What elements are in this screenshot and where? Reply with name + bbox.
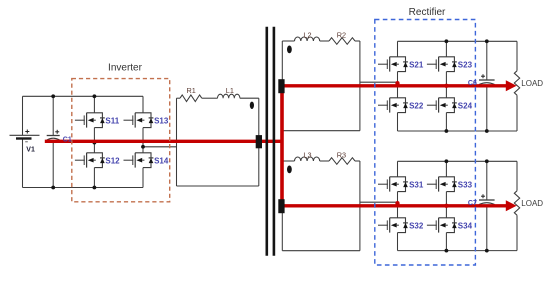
svg-text:S11: S11 <box>105 116 119 125</box>
svg-text:S13: S13 <box>154 116 169 125</box>
svg-text:R2: R2 <box>337 30 346 39</box>
svg-text:LOAD: LOAD <box>521 79 543 88</box>
svg-text:L1: L1 <box>226 86 234 95</box>
svg-text:S14: S14 <box>154 156 169 165</box>
svg-text:S33: S33 <box>458 180 473 189</box>
svg-text:R1: R1 <box>187 86 196 95</box>
svg-text:S12: S12 <box>105 156 120 165</box>
svg-text:R3: R3 <box>337 150 346 159</box>
svg-text:S23: S23 <box>458 60 473 69</box>
svg-text:C1: C1 <box>63 136 72 143</box>
svg-text:L3: L3 <box>303 150 311 159</box>
svg-text:S24: S24 <box>458 101 473 110</box>
svg-text:Inverter: Inverter <box>108 63 143 74</box>
svg-text:S22: S22 <box>409 101 424 110</box>
svg-text:Rectifier: Rectifier <box>409 7 446 18</box>
svg-text:S21: S21 <box>409 60 424 69</box>
svg-text:S31: S31 <box>409 180 424 189</box>
svg-text:S34: S34 <box>458 221 473 230</box>
svg-text:LOAD: LOAD <box>521 199 543 208</box>
svg-text:C7: C7 <box>468 200 477 207</box>
svg-text:S32: S32 <box>409 221 424 230</box>
svg-text:L2: L2 <box>303 30 311 39</box>
svg-text:V1: V1 <box>26 146 35 153</box>
svg-text:C6: C6 <box>468 80 477 87</box>
